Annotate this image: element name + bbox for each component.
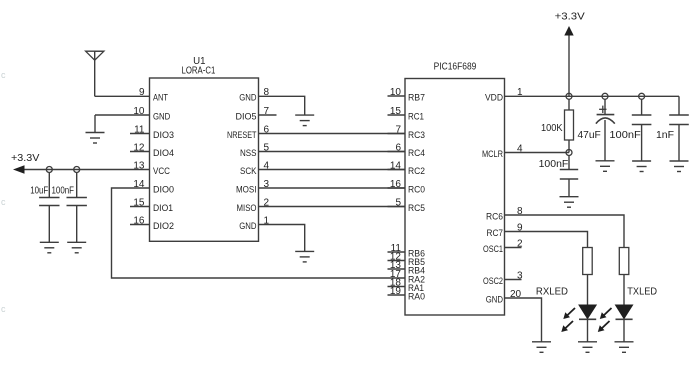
PIC16F689 title — [434, 62, 477, 73]
PIC pin number 15 — [390, 106, 402, 117]
PIC pin 13 label RB4 — [408, 266, 425, 277]
PIC pin number 12 — [390, 252, 402, 263]
U1 value LORA-C1 — [182, 65, 216, 76]
svg-text:DIO4: DIO4 — [153, 148, 174, 159]
ground under MCLR cap — [560, 197, 579, 208]
PIC pin 18 stub RA1 — [388, 286, 406, 288]
svg-text:12: 12 — [133, 143, 145, 154]
op IC U1 LORA-C1 box — [150, 78, 259, 241]
PIC pin 5 label RC5 — [408, 203, 425, 214]
capacitor 100nF (left) value label — [52, 185, 75, 197]
svg-text:DIO2: DIO2 — [153, 221, 174, 232]
net NSS wire U1 pin5 - PIC RC4 — [259, 151, 406, 153]
ground under U1 pin 10 — [86, 133, 105, 144]
PIC pin number 18 — [390, 278, 402, 289]
svg-text:DIO0: DIO0 — [153, 185, 174, 196]
U1 pin number 9 — [139, 87, 145, 98]
svg-text:GND: GND — [239, 221, 256, 232]
net NRESET wire U1 pin6 - PIC RC3 — [259, 133, 406, 135]
IC U2 PIC16F689 box — [405, 79, 505, 316]
power flag +3.3V right — [555, 11, 585, 97]
capacitor 100nF (MCLR) value label — [539, 158, 569, 170]
ground under 10uF — [40, 242, 59, 253]
U1 pin number 14 — [133, 179, 145, 190]
U1 pin 12 stub — [130, 151, 150, 153]
U1 pin 16 stub — [130, 224, 150, 226]
svg-text:MCLR: MCLR — [482, 149, 503, 160]
capacitor C 1nF — [669, 96, 689, 161]
PIC pin 14 stub RC2 — [388, 169, 406, 171]
PIC pin 11 stub RB6 — [388, 251, 406, 253]
U1 pin 7 label DIO5 — [236, 112, 257, 123]
U1 pin 9 label ANT — [153, 93, 168, 104]
svg-text:100nF: 100nF — [539, 158, 569, 170]
capacitor C 47uF value label — [578, 129, 601, 141]
wire U1 DIO0 pin 14 to PIC RA2 pin 17 — [112, 188, 406, 278]
PIC pin 19 stub RA0 — [388, 294, 406, 296]
svg-text:16: 16 — [390, 179, 402, 190]
label RXLED — [536, 286, 568, 298]
PIC pin 6 label RC4 — [408, 148, 425, 159]
PIC pin number 6 — [395, 143, 401, 154]
PIC pin number 13 — [390, 260, 402, 271]
svg-text:7: 7 — [395, 125, 401, 136]
U1 pin 11 stub — [130, 133, 150, 135]
ground under U1 pin 1 — [295, 251, 314, 262]
PIC pin number 9 — [517, 222, 523, 233]
svg-text:OSC1: OSC1 — [483, 244, 503, 255]
U1 pin 14 label DIO0 — [153, 185, 174, 196]
ground under PIC pin 20 — [532, 342, 551, 353]
svg-text:14: 14 — [390, 161, 402, 172]
net VDD wire PIC pin 1 to rail — [505, 95, 680, 97]
wire RC6 PIC pin 8 to TX resistor — [505, 215, 625, 248]
svg-text:9: 9 — [139, 87, 145, 98]
svg-text:100nF: 100nF — [609, 129, 640, 141]
resistor R TX — [619, 248, 629, 306]
U1 pin 4 label SCK — [240, 166, 257, 177]
U1 pin number 15 — [133, 198, 145, 209]
capacitor 1nF value label — [656, 129, 674, 141]
svg-text:+3.3V: +3.3V — [11, 152, 39, 164]
ground under 100nF right — [632, 161, 651, 172]
svg-text:10uF: 10uF — [30, 185, 48, 197]
U1 pin 15 stub — [130, 206, 150, 208]
node junction VDD-C100nF — [639, 93, 645, 99]
svg-text:RC1: RC1 — [408, 112, 424, 123]
node junction VDD-R1 — [566, 93, 572, 99]
svg-text:VDD: VDD — [485, 93, 503, 104]
svg-text:DIO5: DIO5 — [236, 112, 257, 123]
U1 pin 16 label DIO2 — [153, 221, 174, 232]
svg-text:MOSI: MOSI — [236, 185, 257, 196]
svg-text:RC2: RC2 — [408, 166, 425, 177]
PIC pin 1 label VDD — [485, 93, 503, 104]
wire +3.3V rail to U1 VCC pin 13 — [25, 169, 150, 171]
PIC pin 10 stub RB7 — [388, 95, 406, 97]
PIC pin 8 label RC6 — [486, 212, 503, 223]
svg-text:14: 14 — [133, 179, 145, 190]
PIC OSC1 pin 2 stub — [505, 247, 522, 249]
U1 pin number 3 — [264, 179, 270, 190]
svg-text:DIO3: DIO3 — [153, 130, 174, 141]
U1 pin 15 label DIO1 — [153, 203, 173, 214]
LED RXLED diode — [579, 305, 596, 342]
PIC pin 2 label OSC1 — [483, 244, 503, 255]
PIC pin number 14 — [390, 161, 402, 172]
U1 reference designator — [193, 56, 206, 67]
PIC pin number 16 — [390, 179, 402, 190]
svg-text:RB7: RB7 — [408, 93, 425, 104]
label TXLED — [627, 286, 657, 298]
net MOSI wire U1 pin3 - PIC RC0 — [259, 187, 406, 189]
svg-text:11: 11 — [134, 125, 145, 136]
node junction C-left-2 — [74, 167, 80, 173]
svg-text:c: c — [1, 197, 6, 207]
capacitor C 47uF electrolytic — [596, 99, 615, 161]
U1 pin number 5 — [264, 142, 270, 153]
ground under 47uF — [596, 161, 615, 172]
U1 pin number 4 — [264, 160, 270, 171]
svg-text:SCK: SCK — [240, 166, 257, 177]
PIC pin number 7 — [395, 125, 401, 136]
PIC pin 18 label RA1 — [408, 283, 424, 294]
LED TXLED emission arrows — [598, 308, 612, 332]
svg-text:ANT: ANT — [153, 93, 168, 104]
U1 pin 11 label DIO3 — [153, 130, 174, 141]
PIC pin number 11 — [391, 243, 402, 254]
svg-text:VCC: VCC — [153, 166, 170, 177]
PIC pin number 2 — [517, 238, 523, 249]
U1 pin 6 label NRESET — [227, 130, 257, 141]
U1 pin 7 stub — [259, 114, 277, 116]
U1 pin number 1 — [264, 215, 270, 226]
resistor R 100K — [565, 99, 574, 153]
svg-text:NRESET: NRESET — [227, 130, 257, 141]
U1 pin 1 label GND — [239, 221, 256, 232]
ground under 1nF — [670, 161, 689, 172]
wire GND PIC pin 20 to ground — [505, 298, 542, 342]
PIC pin number 20 — [510, 289, 522, 300]
U1 pin 12 label DIO4 — [153, 148, 174, 159]
ground under RXLED — [578, 342, 597, 353]
U1 pin number 13 — [133, 161, 145, 172]
PIC pin 3 label OSC2 — [483, 276, 503, 287]
svg-text:GND: GND — [239, 93, 256, 104]
svg-text:GND: GND — [153, 112, 170, 123]
node junction C-left-1 — [46, 167, 52, 173]
PIC pin 16 stub RC0 — [388, 187, 406, 189]
net SCK wire U1 pin4 - PIC RC2 — [259, 169, 406, 171]
PIC pin 12 label RB5 — [408, 257, 425, 268]
svg-text:5: 5 — [395, 198, 401, 209]
wire antenna to U1 pin 9 ANT — [95, 95, 150, 97]
PIC pin 16 label RC0 — [408, 185, 425, 196]
PIC OSC2 pin 3 stub — [505, 279, 522, 281]
LED RXLED emission arrows — [561, 308, 575, 332]
PIC pin 15 label RC1 — [408, 112, 424, 123]
capacitor C 100nF MCLR — [560, 155, 578, 197]
svg-text:NSS: NSS — [240, 148, 257, 159]
U1 pin number 2 — [264, 197, 270, 208]
ground under TXLED — [615, 342, 634, 353]
svg-text:DIO1: DIO1 — [153, 203, 173, 214]
PIC pin 10 label RB7 — [408, 93, 425, 104]
U1 pin number 11 — [134, 125, 145, 136]
PIC pin number 5 — [395, 198, 401, 209]
capacitor C 10uF — [39, 172, 59, 242]
svg-text:PIC16F689: PIC16F689 — [434, 62, 477, 73]
PIC pin 15 stub RC1 — [388, 114, 406, 116]
U1 pin 2 label MISO — [237, 203, 257, 214]
svg-text:15: 15 — [390, 106, 402, 117]
PIC pin 20 label GND — [486, 295, 503, 306]
svg-text:19: 19 — [390, 286, 402, 297]
svg-text:RC7: RC7 — [487, 228, 504, 239]
PIC pin 7 stub RC3 — [388, 133, 406, 135]
PIC pin number 8 — [517, 206, 523, 217]
svg-text:c: c — [1, 304, 6, 314]
svg-text:RXLED: RXLED — [536, 286, 568, 298]
svg-text:RC5: RC5 — [408, 203, 425, 214]
resistor R RX — [583, 248, 593, 306]
ground under U1 pin 8 — [295, 115, 314, 126]
capacitor 10uF value label — [30, 185, 48, 197]
wire RC7 PIC pin 9 to RX resistor — [505, 232, 588, 248]
svg-text:100K: 100K — [541, 122, 563, 134]
PIC pin 13 stub RB4 — [388, 268, 406, 270]
U1 pin number 16 — [133, 216, 145, 227]
PIC pin 6 stub RC4 — [388, 151, 406, 153]
PIC pin number 19 — [390, 286, 402, 297]
capacitor C 47uF polarity + — [599, 106, 606, 113]
svg-text:100nF: 100nF — [52, 185, 75, 197]
U1 pin number 6 — [264, 124, 270, 135]
capacitor C 100nF left — [67, 172, 87, 242]
PIC pin 5 stub RC5 — [388, 206, 406, 208]
svg-text:RC6: RC6 — [486, 212, 503, 223]
ground under 100nF left — [67, 242, 86, 253]
power flag +3.3V left — [11, 152, 39, 174]
svg-text:10: 10 — [133, 106, 145, 117]
svg-text:GND: GND — [486, 295, 503, 306]
svg-text:+3.3V: +3.3V — [555, 11, 585, 23]
U1 pin 5 label NSS — [240, 148, 257, 159]
net MISO wire U1 pin2 - PIC RC5 — [259, 206, 406, 208]
node junction MCLR — [566, 150, 572, 156]
svg-text:6: 6 — [395, 143, 401, 154]
PIC pin 12 stub RB5 — [388, 260, 406, 262]
PIC pin number 3 — [517, 270, 523, 281]
resistor R 100K value label — [541, 122, 563, 134]
svg-text:RC4: RC4 — [408, 148, 425, 159]
U1 pin 10 GND wire — [95, 115, 150, 133]
PIC pin 14 label RC2 — [408, 166, 425, 177]
svg-text:15: 15 — [133, 198, 145, 209]
U1 pin 8 label GND — [239, 93, 256, 104]
svg-text:1nF: 1nF — [656, 129, 674, 141]
svg-text:LORA-C1: LORA-C1 — [182, 65, 216, 76]
wire MCLR PIC pin 4 to junction — [505, 152, 570, 154]
U1 pin number 10 — [133, 106, 145, 117]
svg-text:13: 13 — [133, 161, 145, 172]
PIC pin 19 label RA0 — [408, 292, 425, 303]
wire U1 pin 8 GND to ground — [259, 96, 305, 115]
svg-text:MISO: MISO — [237, 203, 257, 214]
svg-text:TXLED: TXLED — [627, 286, 657, 298]
node junction VDD-C47uF — [602, 93, 608, 99]
U1 pin 10 label GND — [153, 112, 170, 123]
capacitor C 100nF right — [632, 99, 652, 161]
PIC pin 7 label RC3 — [408, 130, 425, 141]
PIC pin number 1 — [517, 87, 523, 98]
capacitor 100nF (right) value label — [609, 129, 640, 141]
PIC pin number 17 — [390, 269, 402, 280]
PIC pin number 4 — [517, 143, 523, 154]
svg-text:10: 10 — [390, 87, 402, 98]
svg-text:RC0: RC0 — [408, 185, 425, 196]
svg-text:OSC2: OSC2 — [483, 276, 503, 287]
U1 pin 13 label VCC — [153, 166, 170, 177]
svg-text:RA0: RA0 — [408, 292, 425, 303]
LED TXLED diode — [616, 305, 633, 342]
svg-text:16: 16 — [133, 216, 145, 227]
svg-text:RC3: RC3 — [408, 130, 425, 141]
PIC pin 17 label RA2 — [408, 275, 425, 286]
U1 pin 3 label MOSI — [236, 185, 257, 196]
U1 pin number 8 — [264, 87, 270, 98]
PIC pin 4 label MCLR — [482, 149, 503, 160]
U1 pin number 12 — [133, 143, 145, 154]
PIC pin number 10 — [390, 87, 402, 98]
wire U1 pin 1 GND to ground — [259, 225, 305, 252]
svg-text:47uF: 47uF — [578, 129, 601, 141]
antenna E1 — [86, 51, 104, 96]
svg-text:c: c — [1, 70, 6, 80]
PIC pin 11 label RB6 — [408, 249, 425, 260]
PIC pin 9 label RC7 — [487, 228, 504, 239]
scan artifact marks — [1, 70, 6, 314]
U1 pin number 7 — [264, 106, 270, 117]
